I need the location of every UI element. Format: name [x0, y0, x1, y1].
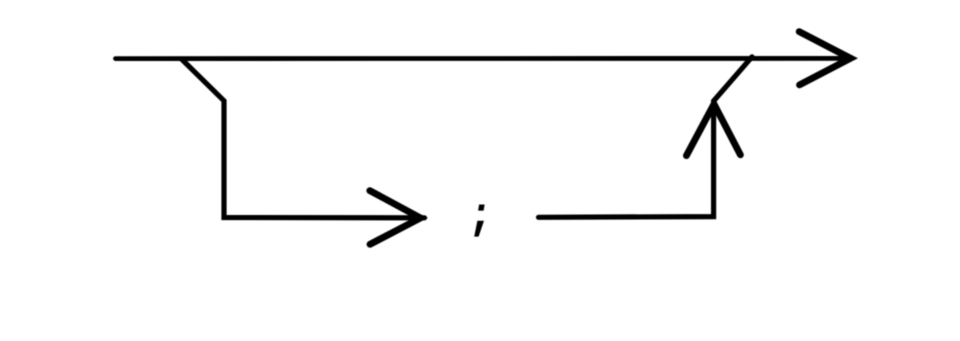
arrow middle (bottom branch, pointing right)	[370, 191, 421, 245]
label semicolon ; separator (dot)	[478, 205, 485, 211]
wire main horizontal line	[116, 56, 852, 61]
label semicolon ; separator (tail)	[474, 221, 484, 237]
arrow right (main line exit)	[799, 32, 850, 85]
wire branch down-left: diagonal from main line, left vertical, bottom segment	[182, 60, 425, 218]
arrow up (return to main line)	[686, 104, 740, 156]
wire branch return: bottom segment, right vertical, diagonal up to main line	[539, 57, 753, 218]
